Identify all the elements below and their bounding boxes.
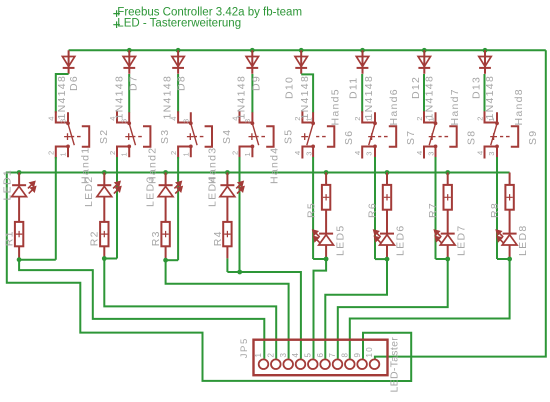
- svg-text:LED3: LED3: [145, 176, 157, 207]
- wire net Hand4 to JP5 pin4: [240, 272, 301, 359]
- junction LED column on bus ch5: [324, 170, 329, 175]
- svg-text:1: 1: [120, 151, 129, 156]
- switch S8 bottom contact: [424, 147, 436, 159]
- svg-text:Hand8: Hand8: [513, 88, 525, 125]
- switch S7 top contact: [362, 111, 375, 123]
- resistor R5: [325, 173, 327, 185]
- switch S3 top contact: [117, 111, 129, 123]
- wire switch S5 to node Hand4: [239, 157, 241, 272]
- connector JP5 pin 10 pad: [370, 359, 380, 369]
- svg-text:Hand7: Hand7: [449, 88, 461, 125]
- switch S6 actuator dashes: [316, 136, 326, 138]
- switch S4 contact dot bottom: [189, 145, 193, 149]
- svg-text:2: 2: [415, 115, 424, 120]
- switch S5 contact dot bottom: [251, 145, 255, 149]
- wire D12 to switch S8: [423, 74, 425, 113]
- svg-text:4: 4: [47, 115, 56, 120]
- wire D10 to switch S6: [301, 74, 313, 112]
- junction LED column on bus ch6: [385, 170, 390, 175]
- switch S4 bottom contact: [178, 147, 191, 159]
- svg-text:2: 2: [230, 150, 239, 155]
- svg-text:3: 3: [181, 118, 190, 123]
- switch S5 top contact: [240, 111, 253, 123]
- switch S2 bottom contact: [56, 147, 68, 159]
- junction on rail at D8: [176, 48, 181, 53]
- wire D9 to switch S5: [251, 74, 253, 113]
- LED LED7: [447, 210, 449, 234]
- switch S6 origin cross: [301, 133, 308, 140]
- LED LED8: [509, 210, 511, 234]
- wire switch S4 to node Hand3: [177, 157, 179, 260]
- switch S9 contact dot bottom: [495, 145, 499, 149]
- svg-text:1N4148: 1N4148: [363, 75, 375, 120]
- svg-text:5: 5: [304, 352, 313, 358]
- junction on rail at D13: [483, 48, 488, 53]
- node Hand7 junction: [445, 257, 450, 262]
- switch S3 lever: [129, 124, 135, 146]
- svg-text:2: 2: [353, 115, 362, 120]
- switch S3 origin cross: [125, 133, 132, 140]
- svg-text:6: 6: [316, 352, 325, 358]
- switch S7 lever: [369, 124, 375, 146]
- wire net Hand5 to JP5 pin5: [314, 259, 327, 359]
- svg-text:2: 2: [475, 115, 484, 120]
- switch S3 contact dot top: [127, 121, 131, 125]
- svg-text:9: 9: [353, 352, 362, 358]
- svg-text:LED7: LED7: [456, 225, 468, 256]
- svg-text:1N4148: 1N4148: [424, 75, 436, 120]
- switch S7 actuator dashes: [378, 136, 388, 138]
- wire net Hand1 to JP5 pin1: [19, 260, 264, 359]
- svg-text:D7: D7: [128, 75, 140, 91]
- switch S2 contact dot top: [66, 121, 70, 125]
- node Hand4 junction: [237, 270, 242, 275]
- connector JP5 outline: [254, 340, 388, 376]
- svg-text:4: 4: [475, 150, 484, 155]
- svg-text:D11: D11: [348, 77, 360, 99]
- switch S4 lever: [191, 124, 197, 146]
- wire switch S6 to node Hand5: [312, 157, 314, 259]
- switch S2 lever: [68, 124, 74, 146]
- wire node to switch column ch8: [497, 258, 510, 260]
- svg-text:D6: D6: [68, 75, 80, 91]
- switch S9 origin cross: [490, 133, 497, 140]
- wire switch S2 to node Hand1: [55, 157, 57, 260]
- switch S6 bottom contact: [302, 147, 313, 159]
- svg-text:LED6: LED6: [395, 225, 407, 256]
- switch S4 origin cross: [187, 133, 194, 140]
- svg-text:LED-Taster: LED-Taster: [388, 337, 400, 393]
- svg-text:S3: S3: [159, 129, 171, 144]
- wire node to switch column ch5: [313, 258, 326, 260]
- switch S8 lever: [429, 124, 435, 146]
- wire node to switch column ch2: [104, 258, 117, 260]
- svg-text:Hand5: Hand5: [330, 88, 342, 125]
- connector JP5 pin 1 pad: [259, 359, 269, 369]
- diode D7 1N4148: [128, 50, 130, 74]
- switch S3 bottom contact: [117, 147, 129, 159]
- resistor R4: [226, 197, 228, 222]
- wire LED bus: [7, 173, 510, 382]
- junction LED column on bus ch4: [225, 170, 230, 175]
- node Hand2 junction: [102, 256, 107, 261]
- svg-text:1N4148: 1N4148: [236, 75, 248, 120]
- svg-text:1: 1: [181, 151, 190, 156]
- svg-text:4: 4: [293, 150, 302, 155]
- junction LED column on bus ch3: [163, 170, 168, 175]
- switch S2 origin cross: [64, 133, 71, 140]
- switch S6 contact dot top: [311, 121, 315, 125]
- LED LED6: [386, 210, 388, 234]
- switch S6 top contact: [302, 111, 313, 123]
- LED LED4: [226, 173, 228, 186]
- svg-text:S6: S6: [343, 130, 355, 145]
- junction LED column on bus ch1: [17, 170, 22, 175]
- svg-text:3: 3: [487, 150, 496, 155]
- switch S9 actuator bracket: [511, 126, 518, 147]
- switch S2 top contact: [56, 111, 68, 123]
- wire R2 to node: [103, 246, 105, 258]
- svg-text:3: 3: [279, 352, 288, 358]
- svg-text:S8: S8: [466, 130, 478, 145]
- connector JP5 pin 6 pad: [320, 359, 330, 369]
- switch S8 contact dot bottom: [434, 145, 438, 149]
- junction on rail at D10: [299, 48, 304, 53]
- switch S9 contact dot top: [495, 121, 499, 125]
- switch S7 actuator bracket: [389, 126, 396, 147]
- svg-text:LED8: LED8: [517, 225, 529, 256]
- wire D8 to switch S4: [177, 74, 179, 113]
- junction on rail at D7: [127, 48, 132, 53]
- svg-text:S2: S2: [98, 129, 110, 144]
- connector JP5 pin 5 pad: [308, 359, 318, 369]
- wire top diode rail: [69, 49, 546, 51]
- svg-text:S7: S7: [405, 130, 417, 145]
- wire right edge drop to pin10: [375, 50, 546, 359]
- switch S5 lever: [252, 124, 258, 146]
- junction on rail at D9: [250, 48, 255, 53]
- svg-text:1: 1: [254, 352, 263, 358]
- diode D10 1N4148: [300, 50, 302, 74]
- connector JP5 pin 4 pad: [296, 359, 306, 369]
- switch S9 actuator dashes: [500, 136, 510, 138]
- wire net Hand6 to JP5 pin6: [325, 259, 387, 359]
- LED LED3: [165, 173, 167, 186]
- resistor R1: [18, 197, 20, 222]
- svg-text:R7: R7: [427, 202, 439, 218]
- switch S9 bottom contact: [485, 147, 498, 159]
- svg-text:Hand6: Hand6: [388, 88, 400, 125]
- svg-text:R1: R1: [4, 230, 16, 246]
- svg-text:R6: R6: [367, 202, 379, 218]
- svg-text:2: 2: [108, 150, 117, 155]
- resistor R2: [103, 197, 105, 222]
- switch S2 actuator bracket: [82, 126, 89, 147]
- wire D13 to switch S9: [484, 74, 486, 113]
- switch S7 contact dot top: [373, 121, 377, 125]
- wire D11 to switch S7: [361, 74, 363, 113]
- resistor R8: [509, 173, 511, 185]
- svg-text:S5: S5: [282, 129, 294, 144]
- title origin cross 1: [113, 10, 120, 17]
- wire net Hand2 to JP5 pin2: [104, 259, 276, 359]
- svg-text:D9: D9: [251, 75, 263, 91]
- switch S8 contact dot top: [434, 121, 438, 125]
- node Hand5 junction: [324, 257, 329, 262]
- svg-text:4: 4: [415, 150, 424, 155]
- wire net Hand8 to JP5 pin8: [350, 259, 510, 359]
- wire switch S8 to node Hand7: [435, 157, 437, 259]
- svg-text:3: 3: [426, 150, 435, 155]
- junction LED column on bus ch2: [102, 170, 107, 175]
- svg-text:S4: S4: [221, 129, 233, 144]
- svg-text:R4: R4: [212, 230, 224, 246]
- node Hand6 junction: [385, 257, 390, 262]
- wire node to switch column ch1: [19, 259, 56, 261]
- switch S6 contact dot bottom: [311, 145, 315, 149]
- switch S5 origin cross: [249, 133, 256, 140]
- diode D9 1N4148: [251, 50, 253, 74]
- connector JP5 pin 8 pad: [345, 359, 355, 369]
- switch S5 contact dot top: [251, 121, 255, 125]
- switch S9 top contact: [485, 111, 498, 123]
- wire switch S3 to node Hand2: [116, 157, 118, 259]
- svg-text:R5: R5: [306, 202, 318, 218]
- svg-text:R2: R2: [89, 230, 101, 246]
- wire R1 to node: [18, 246, 20, 259]
- svg-text:3: 3: [305, 150, 314, 155]
- switch S3 contact dot bottom: [127, 145, 131, 149]
- svg-text:2: 2: [267, 352, 276, 358]
- wire node to switch column ch6: [375, 258, 387, 260]
- svg-text:1N4148: 1N4148: [162, 75, 174, 120]
- switch S8 actuator dashes: [439, 136, 449, 138]
- svg-text:D10: D10: [284, 76, 296, 99]
- wire D6 to switch S2: [56, 74, 69, 113]
- switch S9 lever: [491, 124, 497, 146]
- svg-text:10: 10: [365, 346, 374, 358]
- wire D7 to switch S3: [128, 74, 130, 113]
- diode D13 1N4148: [484, 50, 486, 74]
- LED LED1: [18, 173, 20, 186]
- wire node to switch column ch4: [227, 271, 239, 273]
- svg-text:4: 4: [353, 150, 362, 155]
- switch S5 bottom contact: [240, 147, 253, 159]
- svg-text:LED4: LED4: [207, 176, 219, 207]
- switch S7 bottom contact: [362, 147, 375, 159]
- switch S8 top contact: [424, 111, 436, 123]
- switch S3 actuator dashes: [132, 136, 142, 138]
- svg-text:D8: D8: [176, 75, 188, 91]
- resistor R3: [165, 197, 167, 222]
- wire node to switch column ch7: [436, 258, 448, 260]
- svg-text:1N4148: 1N4148: [114, 75, 126, 120]
- node Hand3 junction: [163, 258, 168, 263]
- LED LED2: [103, 173, 105, 186]
- svg-text:2: 2: [47, 150, 56, 155]
- wire R4 to node: [226, 246, 228, 258]
- connector JP5 pin 3 pad: [283, 359, 293, 369]
- resistor R6: [386, 173, 388, 185]
- svg-text:D13: D13: [471, 76, 483, 99]
- diode D12 1N4148: [423, 50, 425, 74]
- switch S6 lever: [307, 124, 313, 146]
- switch S8 origin cross: [429, 133, 436, 140]
- switch S2 actuator dashes: [71, 136, 81, 138]
- svg-text:2: 2: [169, 150, 178, 155]
- node Hand1 junction: [17, 257, 22, 262]
- switch S4 contact dot top: [189, 121, 193, 125]
- svg-text:R8: R8: [489, 202, 501, 218]
- junction on rail at D12: [422, 48, 427, 53]
- connector JP5 pin 9 pad: [357, 359, 367, 369]
- switch S4 actuator dashes: [194, 136, 204, 138]
- wire switch S7 to node Hand6: [374, 157, 376, 259]
- svg-text:1: 1: [243, 151, 252, 156]
- svg-text:LED2: LED2: [83, 176, 95, 207]
- connector JP5 pin 7 pad: [333, 359, 343, 369]
- svg-text:1N4148: 1N4148: [299, 75, 311, 120]
- diode D8 1N4148: [177, 50, 179, 74]
- svg-text:R3: R3: [150, 230, 162, 246]
- svg-text:D12: D12: [410, 76, 422, 99]
- svg-text:LED5: LED5: [335, 225, 347, 256]
- wire R3 to node: [165, 246, 167, 260]
- svg-text:8: 8: [341, 352, 350, 358]
- svg-text:1N4148: 1N4148: [484, 75, 496, 120]
- svg-text:JP5: JP5: [239, 337, 250, 358]
- junction LED column on bus ch7: [445, 170, 450, 175]
- diode D11 1N4148: [362, 50, 364, 74]
- resistor R7: [447, 173, 449, 185]
- switch S6 actuator bracket: [327, 126, 334, 147]
- switch S2 contact dot bottom: [66, 145, 70, 149]
- wire node to switch column ch3: [166, 259, 179, 261]
- node Hand8 junction: [507, 257, 512, 262]
- switch S7 origin cross: [368, 133, 375, 140]
- svg-text:1N4148: 1N4148: [56, 75, 68, 120]
- switch S3 actuator bracket: [143, 126, 150, 147]
- svg-text:4: 4: [291, 352, 300, 358]
- svg-text:1: 1: [59, 151, 68, 156]
- connector JP5 pin 2 pad: [271, 359, 281, 369]
- svg-text:7: 7: [328, 352, 337, 358]
- switch S4 top contact: [178, 111, 191, 123]
- svg-text:S9: S9: [527, 130, 539, 145]
- junction on rail at D11: [360, 48, 365, 53]
- switch S4 actuator bracket: [205, 126, 212, 147]
- LED LED5: [325, 210, 327, 234]
- diode D6 1N4148: [68, 50, 70, 74]
- svg-text:Hand4: Hand4: [269, 147, 281, 184]
- wire net Hand7 to JP5 pin7: [338, 259, 448, 359]
- svg-text:LED - Tastererweiterung: LED - Tastererweiterung: [117, 17, 241, 29]
- svg-text:3: 3: [365, 150, 374, 155]
- wire switch S9 to node Hand8: [496, 157, 498, 259]
- svg-text:LED1: LED1: [2, 169, 14, 200]
- switch S5 actuator bracket: [266, 126, 273, 147]
- wire net Hand3 to JP5 pin3: [166, 260, 289, 359]
- switch S7 contact dot bottom: [373, 145, 377, 149]
- switch S8 actuator bracket: [449, 126, 456, 147]
- switch S5 actuator dashes: [255, 136, 265, 138]
- title origin cross 2: [113, 21, 120, 28]
